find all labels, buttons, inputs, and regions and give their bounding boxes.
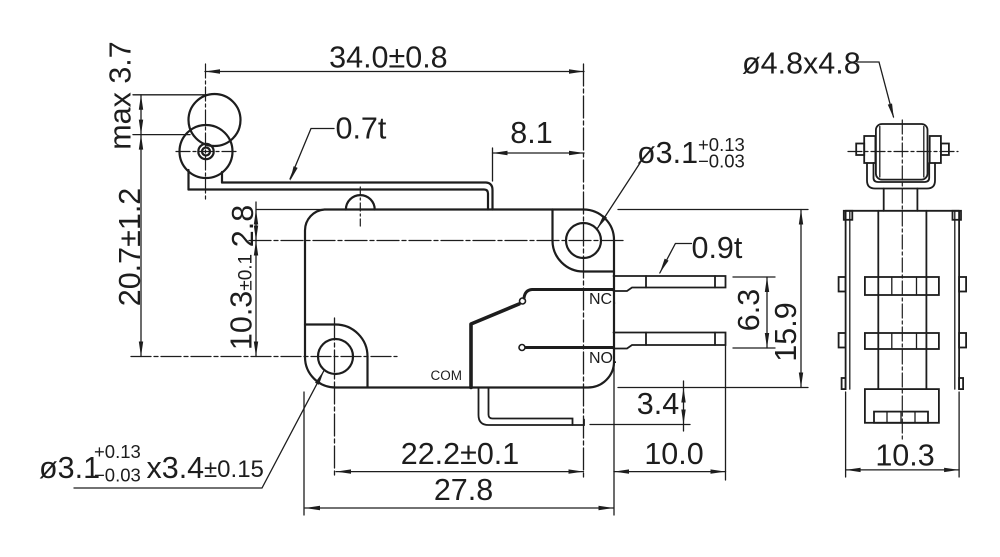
leader 0.7t <box>290 129 334 180</box>
ext line body right bottom <box>613 365 615 515</box>
end view NC terminal row <box>865 277 939 295</box>
leader dia4.8 <box>857 62 894 117</box>
ext line roller top <box>133 94 206 96</box>
leader 0.9t <box>660 244 692 274</box>
svg-text:±0.15: ±0.15 <box>204 456 264 483</box>
end view top ears <box>844 211 853 220</box>
end view axle centerline <box>848 151 958 153</box>
switch body (side view) <box>305 210 614 388</box>
dim 34.0±0.8 line <box>205 71 584 73</box>
dim 8.1 line <box>493 152 585 154</box>
dim 10.0 line <box>614 471 726 473</box>
leader dia3.1 top <box>597 163 640 229</box>
arrowheads <box>139 69 959 510</box>
NO contact rivet <box>519 345 525 351</box>
roller centerlines <box>176 64 236 200</box>
ext line body top left <box>257 209 325 211</box>
mounting hole boss bottom-left <box>305 325 368 387</box>
svg-text:10.3: 10.3 <box>875 439 934 473</box>
hole1 horizontal centerline <box>131 356 397 358</box>
svg-text:22.2±0.1: 22.2±0.1 <box>401 437 520 471</box>
ext line terminal tips <box>725 346 727 480</box>
svg-text:ø3.1: ø3.1 <box>637 136 698 170</box>
end view central column <box>878 211 926 389</box>
end view vertical centerline <box>901 120 903 442</box>
ext line body left bottom <box>303 392 305 515</box>
ext lines end view width <box>846 392 960 477</box>
mounting hole bottom-left <box>318 339 353 374</box>
internal COM riser and leaf spring <box>471 304 519 388</box>
end view roller <box>876 124 928 180</box>
end view side tabs NO level <box>839 333 846 348</box>
svg-text:0.9t: 0.9t <box>692 231 743 265</box>
NO terminal blade <box>614 333 726 349</box>
end view NO terminal row <box>865 333 939 349</box>
end view body top edge <box>846 210 960 212</box>
svg-text:+0.13: +0.13 <box>94 441 141 462</box>
svg-text:NC.: NC. <box>589 291 617 308</box>
roller bracket <box>189 170 223 190</box>
ext line hook outer face <box>492 148 494 181</box>
svg-text:3.4: 3.4 <box>637 387 679 421</box>
NC terminal blade <box>614 276 726 291</box>
svg-text:15.9: 15.9 <box>769 302 803 361</box>
roller circle upper (max position) <box>189 94 241 146</box>
end view body outer side walls <box>846 211 960 389</box>
internal NO contact arm <box>526 346 614 349</box>
end view bottom block <box>865 389 939 423</box>
ext line roller lower <box>133 134 190 136</box>
hole1 vertical centerline <box>334 318 336 477</box>
dim 3.4 line <box>683 381 685 431</box>
svg-text:34.0±0.8: 34.0±0.8 <box>329 41 448 75</box>
svg-text:ø3.1: ø3.1 <box>39 451 100 485</box>
end view lever fork strap <box>867 163 935 189</box>
plunger button on body top <box>346 187 375 226</box>
svg-text:10.3±0.1: 10.3±0.1 <box>225 254 259 350</box>
svg-text:x3.4: x3.4 <box>147 451 205 485</box>
roller circle at pivot <box>180 125 233 178</box>
COM terminal bent tab below body <box>479 388 585 426</box>
svg-text:8.1: 8.1 <box>510 116 552 150</box>
internal NC contact arm <box>524 290 614 299</box>
end view bottom corner steps <box>842 378 846 389</box>
end view side tabs NC level <box>839 277 846 292</box>
dim 2.8 / 10.3 vertical line <box>255 202 257 357</box>
svg-text:−0.03: −0.03 <box>698 151 745 172</box>
svg-text:10.0: 10.0 <box>644 437 703 471</box>
dim 15.9 ext lines <box>618 210 808 388</box>
dim 10.3 end view line <box>846 469 960 471</box>
svg-text:0.7t: 0.7t <box>336 112 387 146</box>
end view axle bracket plates <box>864 136 875 163</box>
svg-text:27.8: 27.8 <box>434 473 493 507</box>
dim 22.2 line <box>336 471 584 473</box>
end view body inner wall lines <box>850 211 955 389</box>
dim 15.9 line <box>800 210 802 388</box>
mounting hole boss top-right <box>553 210 615 272</box>
dim 6.3 line <box>766 277 768 348</box>
svg-text:max 3.7: max 3.7 <box>104 41 138 150</box>
end view roller edge lines <box>880 127 924 178</box>
hole2 vertical centerline <box>583 64 585 477</box>
mounting hole top-right <box>566 223 601 258</box>
svg-text:2.8: 2.8 <box>226 205 260 247</box>
dim 6.3 ext lines <box>733 277 775 348</box>
svg-text:20.7±1.2: 20.7±1.2 <box>113 188 147 307</box>
roller pivot rivet <box>198 144 213 159</box>
end view axle stubs <box>856 144 864 156</box>
dim 3.4 lower ext line <box>590 424 690 426</box>
dim 27.8 line <box>305 507 614 509</box>
svg-text:COM: COM <box>431 368 463 383</box>
svg-text:6.3: 6.3 <box>732 289 766 331</box>
dim max3.7 / 20.7 vertical line <box>140 95 142 357</box>
end view COM terminal row <box>874 412 928 423</box>
end view plunger neck <box>884 189 918 211</box>
hole2 horizontal centerline <box>249 240 625 242</box>
svg-text:NO.: NO. <box>589 350 617 367</box>
lever arm (0.7t strip) <box>189 183 493 210</box>
moving contact rivet <box>520 298 526 304</box>
svg-text:−0.03: −0.03 <box>94 465 141 486</box>
svg-text:ø4.8x4.8: ø4.8x4.8 <box>742 47 861 81</box>
leader dia3.1x3.4 bottom with underline <box>74 371 324 489</box>
